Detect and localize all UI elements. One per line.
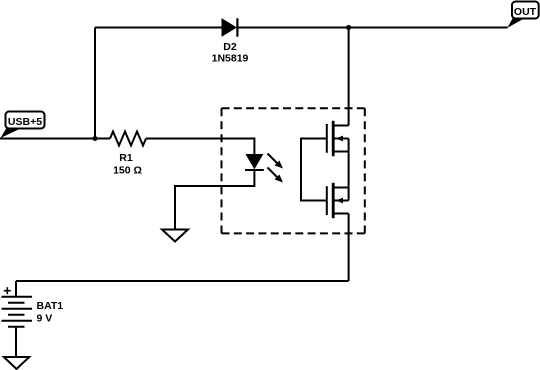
diode D2 — [222, 18, 237, 36]
resistor R1 — [110, 132, 146, 146]
ground (battery side) — [4, 357, 29, 369]
battery BAT1 — [2, 287, 33, 327]
opto relay package outline (dashed) — [222, 108, 365, 233]
wire R1 to LED anode — [146, 139, 254, 155]
wire rail down to battery + — [15, 281, 17, 297]
net flag USB+5 — [1, 112, 45, 139]
gate bus wire — [301, 139, 327, 201]
wire D2 cathode to OUT flag — [237, 27, 507, 29]
ground (LED side) — [162, 230, 188, 242]
wire junction up to top rail — [94, 28, 96, 139]
net flag OUT — [507, 2, 538, 28]
svg-text:USB+5: USB+5 — [8, 116, 42, 128]
MOSFET Q2 (bottom) — [327, 183, 349, 218]
wire common source node — [348, 139, 350, 201]
wire bottom rail — [16, 280, 349, 282]
svg-text:OUT: OUT — [514, 6, 537, 18]
svg-text:150 Ω: 150 Ω — [113, 164, 142, 176]
wire junction to R1 — [95, 138, 110, 140]
wire LED cathode to ground — [175, 170, 254, 230]
svg-text:BAT1: BAT1 — [37, 300, 64, 312]
light emission arrows — [268, 154, 284, 183]
LED of opto-isolator — [245, 155, 264, 171]
junction dot at USB+5 node — [93, 136, 98, 141]
wire top drain to top rail — [348, 28, 350, 126]
wire top rail left to D2 anode — [95, 27, 223, 29]
wire bottom drain to bottom rail — [348, 214, 350, 282]
wire battery - to ground — [15, 327, 17, 357]
svg-text:R1: R1 — [119, 152, 133, 164]
MOSFET Q1 (top) — [327, 121, 349, 156]
wire USB+5 flag to junction — [0, 138, 95, 140]
svg-text:9 V: 9 V — [37, 312, 53, 324]
junction dot at top rail / MOSFET drain — [346, 25, 351, 30]
svg-text:1N5819: 1N5819 — [212, 53, 249, 65]
svg-text:D2: D2 — [223, 41, 237, 53]
